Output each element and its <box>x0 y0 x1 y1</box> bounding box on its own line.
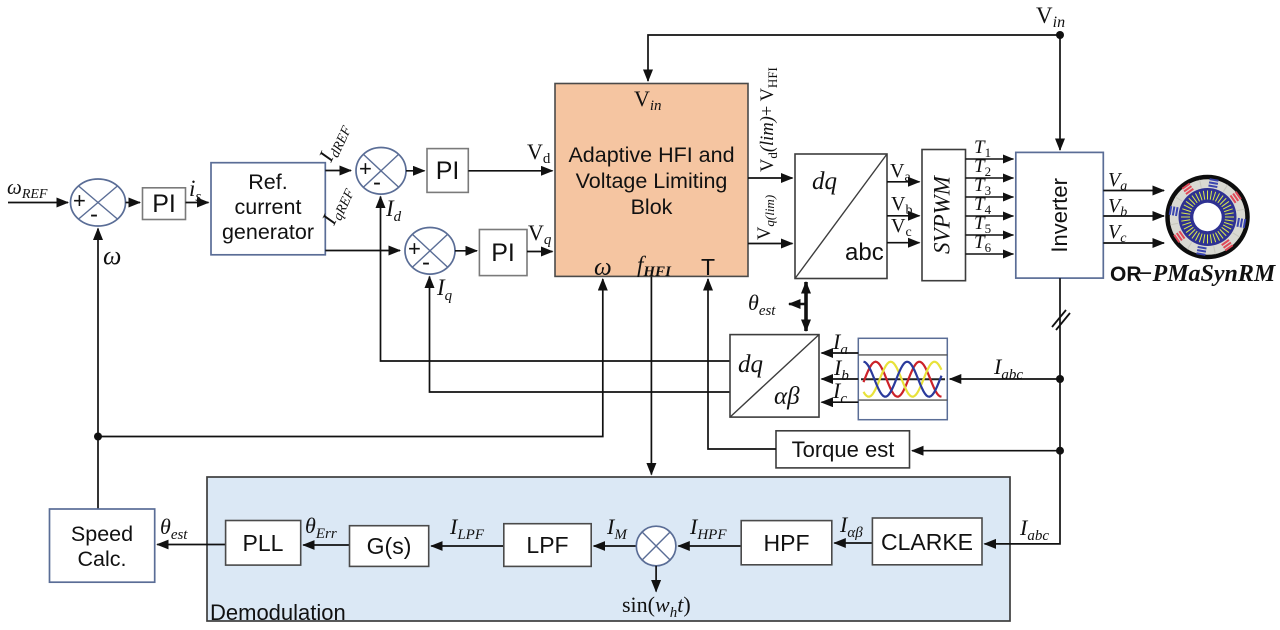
wire LPF to G(s), label I_LPF <box>431 545 504 547</box>
svg-text:Vq(lim): Vq(lim) <box>755 195 777 240</box>
wire refgen to J3, label I_qREF rotated <box>325 250 400 252</box>
svg-text:CLARKE: CLARKE <box>881 529 973 555</box>
svg-text:Blok: Blok <box>631 195 673 219</box>
svg-text:+: + <box>359 156 372 181</box>
svg-text:dq: dq <box>738 351 763 378</box>
PLL block <box>226 521 301 566</box>
wire J1 to PI1 <box>126 202 141 204</box>
svg-text:-: - <box>90 201 98 228</box>
wire HFI out q <box>748 243 793 245</box>
summing junction J1 <box>71 179 126 228</box>
svg-text:ωREF: ωREF <box>7 175 48 202</box>
wire right to torque est <box>912 450 1060 452</box>
break symbol <box>1052 310 1070 330</box>
G(s) block <box>350 526 429 567</box>
wire I_q feedback <box>430 277 731 393</box>
svg-text:PI: PI <box>152 190 176 218</box>
svg-text:αβ: αβ <box>774 383 800 410</box>
svg-text:ω: ω <box>594 254 612 281</box>
svg-text:Iabc: Iabc <box>993 354 1023 383</box>
svg-text:Calc.: Calc. <box>78 547 127 571</box>
svg-text:current: current <box>235 195 302 219</box>
wire HPF to multiplier, label I_HPF <box>678 545 741 547</box>
wire omega feedback from speed calc to J1 <box>97 229 99 510</box>
svg-text:Vd(lim)+ VHFI: Vd(lim)+ VHFI <box>758 67 780 172</box>
summing junction J3 <box>405 228 455 277</box>
wire V_in to inverter <box>1059 35 1061 150</box>
wire multiplier to LPF, label I_M <box>594 545 637 547</box>
svg-text:Vb: Vb <box>1108 195 1127 220</box>
PI controller 1 <box>143 188 186 220</box>
svg-text:LPF: LPF <box>526 532 568 558</box>
svg-text:OR: OR <box>1110 263 1142 286</box>
svg-text:Ref.: Ref. <box>248 170 287 194</box>
dq/alphabeta transform block <box>730 335 819 418</box>
wire PI3 to HFI block, label V_q <box>527 251 553 253</box>
svg-text:T: T <box>701 254 715 280</box>
wire G(s) to PLL, label theta_Err <box>303 544 349 546</box>
svg-text:-: - <box>373 169 381 196</box>
svg-text:Inverter: Inverter <box>1047 178 1072 253</box>
junction dot V_in <box>1056 31 1064 39</box>
theta_est thick link <box>748 282 806 331</box>
speed calc block <box>50 509 155 582</box>
junction dot at scope line <box>1056 375 1064 383</box>
inverter block <box>1016 152 1104 278</box>
wire J3 to PI3 <box>455 250 477 252</box>
svg-text:Va: Va <box>890 160 911 185</box>
svg-text:SVPWM: SVPWM <box>930 174 955 254</box>
wire multiplier to sin <box>655 566 657 592</box>
junction dot omega branch <box>94 433 102 441</box>
wire PLL to speed calc, label theta_est <box>157 544 225 546</box>
svg-text:Ia: Ia <box>832 329 848 358</box>
PI controller 3 <box>479 230 527 276</box>
svg-text:Va: Va <box>1108 169 1127 194</box>
svg-text:HPF: HPF <box>764 530 810 556</box>
svg-text:IdREF: IdREF <box>313 119 355 168</box>
torque est block <box>776 431 910 468</box>
multiplier junction <box>636 526 676 566</box>
svg-text:Vc: Vc <box>891 215 912 240</box>
labels T1-T6 <box>974 137 992 255</box>
wires T1-T6 SVPWM to inverter <box>966 159 1014 254</box>
svg-text:Voltage Limiting: Voltage Limiting <box>576 169 728 193</box>
svg-text:Demodulation: Demodulation <box>210 600 346 625</box>
wires inverter to motor Va Vb Vc <box>1103 190 1164 192</box>
wires dq/abc to SVPWM Va Vb Vc <box>887 181 920 183</box>
wire f_HFI down to demodulation <box>650 276 652 474</box>
LPF block <box>504 524 591 567</box>
svg-text:Vin: Vin <box>1036 3 1065 31</box>
svg-text:+: + <box>408 236 421 261</box>
svg-text:Speed: Speed <box>71 522 133 546</box>
adaptive HFI block <box>555 84 748 282</box>
CLARKE block <box>872 518 982 565</box>
wire I_abc to scope <box>950 378 1060 380</box>
wire omega branch to HFI block <box>98 279 603 437</box>
svg-text:dq: dq <box>812 168 837 195</box>
svg-text:Vd: Vd <box>527 139 551 167</box>
svg-text:Torque est: Torque est <box>792 437 895 462</box>
HPF block <box>741 521 832 565</box>
svg-text:PLL: PLL <box>243 530 284 556</box>
summing junction J2 <box>356 148 406 197</box>
svg-text:+: + <box>73 188 86 213</box>
svg-text:Vc: Vc <box>1108 221 1127 246</box>
junction dot at torque line <box>1056 447 1064 455</box>
SVPWM block <box>922 150 966 281</box>
svg-text:ω: ω <box>103 241 121 270</box>
svg-text:abc: abc <box>845 239 884 266</box>
wire: omega_ref input <box>8 202 68 204</box>
wire J2 to PI2 <box>406 170 425 172</box>
svg-text:Id: Id <box>385 196 402 225</box>
svg-text:PI: PI <box>491 239 515 267</box>
svg-text:−PMaSynRM: −PMaSynRM <box>1138 261 1277 287</box>
wire I_d feedback <box>381 197 731 362</box>
svg-text:θest: θest <box>160 514 188 543</box>
wire PI1 to ref gen, label i_s <box>186 202 209 204</box>
scope box with 3-phase waves <box>858 338 947 419</box>
svg-text:-: - <box>422 249 430 276</box>
wire inverter bottom down <box>985 278 1061 544</box>
svg-text:Iq: Iq <box>436 275 453 304</box>
motor PMaSynRM <box>1168 177 1248 257</box>
svg-text:Vq: Vq <box>528 220 552 248</box>
wire V_in top feed <box>648 35 1060 81</box>
PI controller 2 <box>427 149 468 193</box>
wire torque est to HFI T input <box>708 279 776 449</box>
svg-text:Iabc: Iabc <box>1019 515 1049 544</box>
wires scope to dq/ab I_a I_b I_c <box>822 352 859 354</box>
wire CLARKE to HPF, label I_ab <box>834 542 872 544</box>
Ref. current generator block <box>211 163 325 255</box>
svg-text:Adaptive HFI and: Adaptive HFI and <box>568 143 734 167</box>
svg-text:generator: generator <box>222 220 314 244</box>
wire PI2 to HFI block, label V_d <box>468 170 552 172</box>
svg-text:PI: PI <box>436 157 460 185</box>
dq/abc transform block <box>795 154 887 279</box>
demodulation region background <box>207 477 1010 621</box>
wire refgen to J2, label I_dREF rotated <box>325 170 351 172</box>
wire HFI out d <box>748 177 793 179</box>
svg-text:θest: θest <box>748 290 776 319</box>
svg-text:is: is <box>189 176 201 205</box>
svg-text:G(s): G(s) <box>367 533 412 559</box>
svg-text:sin(wht): sin(wht) <box>622 592 691 621</box>
